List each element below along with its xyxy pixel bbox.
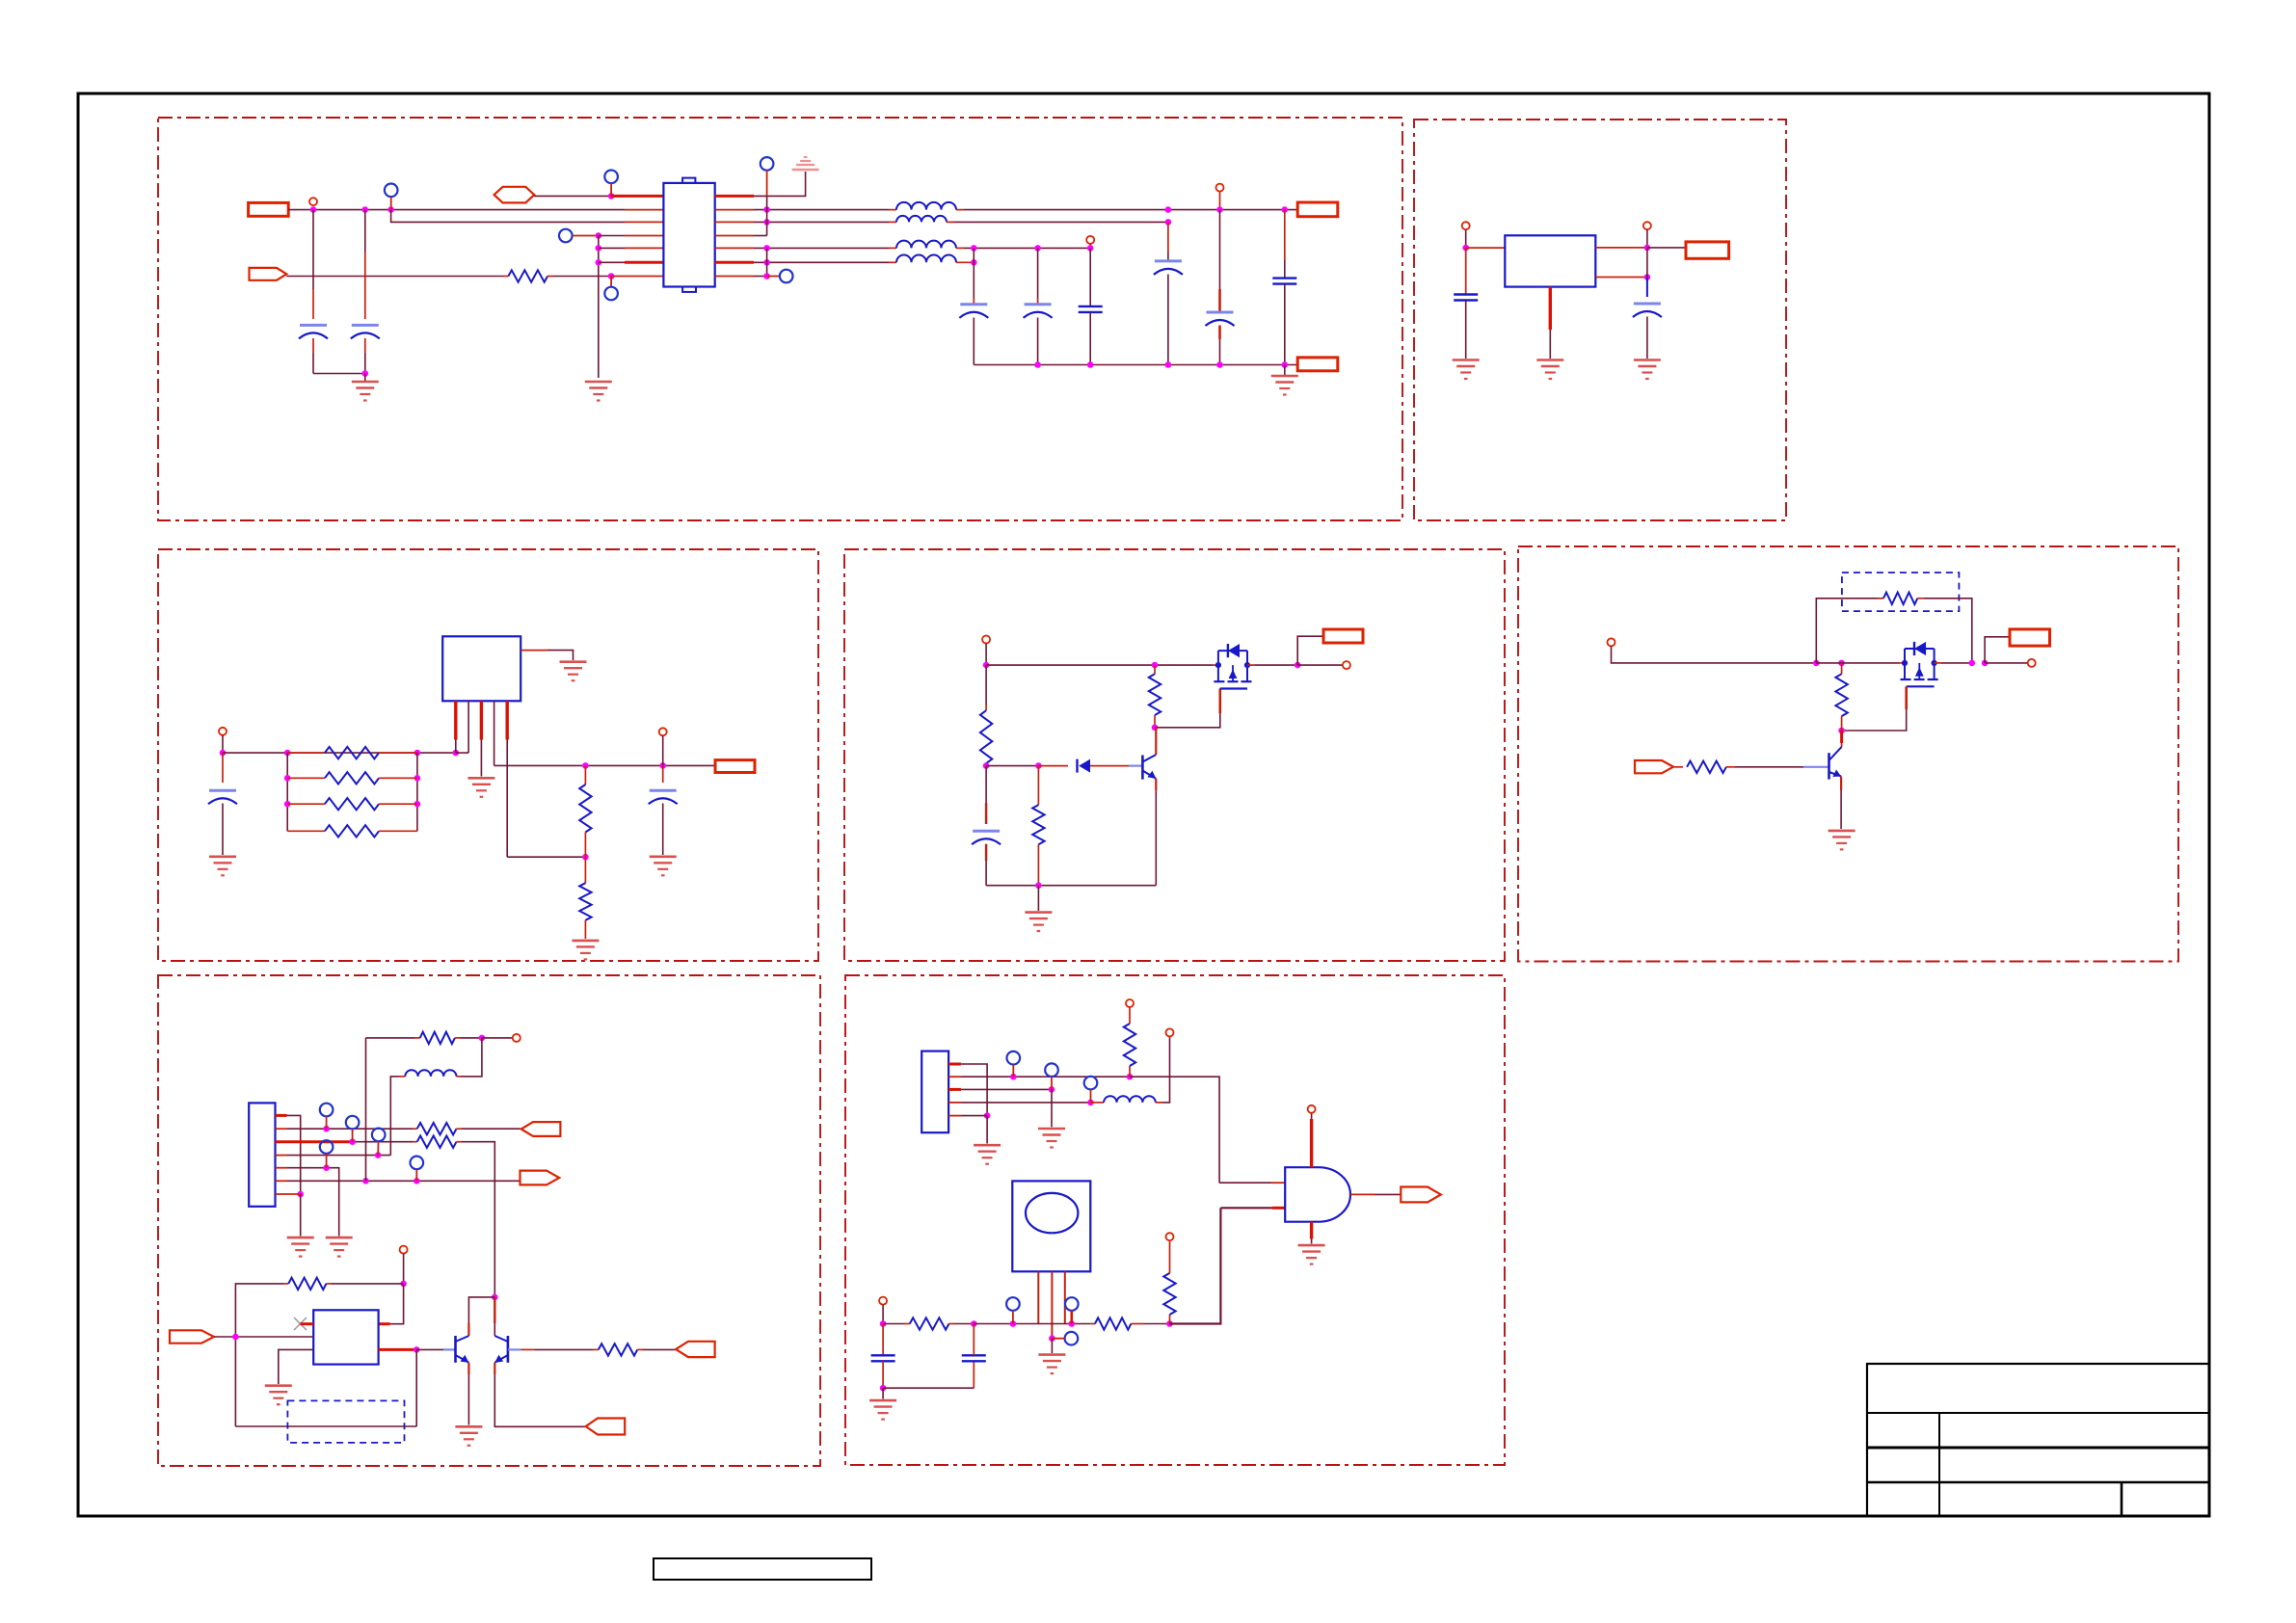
node rail-col4: [1165, 361, 1172, 368]
MOSFET Q1 P-channel: [1214, 644, 1251, 689]
resistor R4: [325, 798, 379, 810]
capacitor C11: [209, 789, 236, 792]
ground GND2: [585, 382, 612, 401]
capacitor C2: [352, 324, 379, 327]
wire P1 to R1: [286, 276, 503, 278]
resistor R11: [1883, 593, 1917, 604]
node pin6-bus: [362, 1178, 369, 1184]
resistor R1: [503, 276, 508, 278]
node collector-top: [492, 1294, 498, 1301]
gate wire Q3: [1905, 686, 1908, 709]
wire pin3 gnd: [1051, 1089, 1053, 1127]
resistor R19: [1124, 1024, 1135, 1066]
no-connect circle NC17: [1065, 1332, 1079, 1345]
resistor R14: [417, 1123, 457, 1134]
wire pin1 to gnd: [986, 1116, 988, 1144]
node BC-left: [880, 1320, 887, 1327]
node base-drive: [414, 1346, 420, 1353]
wire out to J6: [1297, 636, 1323, 665]
node divider top: [582, 762, 589, 769]
resistor R3: [325, 772, 379, 784]
CN1 pin1 wire: [276, 1114, 287, 1117]
wire out to term: [1297, 664, 1343, 666]
wire bus to U1 pin6: [599, 261, 625, 263]
ground GND18: [974, 1145, 1001, 1164]
gate upper input stub: [1272, 1182, 1286, 1184]
gate wire: [1155, 713, 1220, 728]
terminal circle U6-vcc: [1308, 1105, 1316, 1113]
connector J1: [249, 202, 289, 216]
wire bus to R16: [366, 1037, 415, 1039]
ground GND14: [287, 1237, 314, 1257]
node row5-bus: [596, 245, 602, 252]
stub NC1: [390, 197, 392, 210]
node MC-in: [983, 662, 990, 669]
node row2-col4: [1165, 206, 1172, 213]
pin stub U1 pin12: [715, 247, 754, 249]
wire outA-outB: [1646, 248, 1648, 278]
node R3 right: [414, 775, 421, 782]
wire midpin gnd: [1051, 1339, 1053, 1353]
node pin4: [375, 1152, 382, 1158]
resistor R8: [980, 710, 992, 763]
node L4-col1: [971, 259, 977, 266]
node U3pin1: [453, 750, 460, 757]
cap C1 column: [312, 210, 314, 289]
wire to gate lower input: [1170, 1208, 1221, 1323]
node R16-L5: [479, 1035, 486, 1042]
stub NC14: [1090, 1089, 1092, 1103]
stub circle3: [1219, 192, 1221, 210]
bus riser: [365, 1038, 367, 1181]
U3 right pin to gnd: [521, 650, 547, 652]
IC U5 oscillator: [1012, 1181, 1090, 1271]
no-connect circle NC6: [780, 270, 793, 283]
capacitor C6: [1155, 259, 1182, 262]
terminal circle MR-in: [1608, 638, 1615, 646]
node C14-gnd: [880, 1385, 887, 1392]
stub VR-out: [1646, 229, 1648, 248]
inductor L6: [1104, 1096, 1156, 1103]
capacitor C3: [960, 303, 987, 306]
node MR out2: [1982, 660, 1989, 667]
ground GND12: [1025, 913, 1052, 932]
connector P7 arrow: [676, 1342, 715, 1357]
wire L5 to pin4: [390, 1077, 399, 1156]
cap C13 column: [985, 766, 987, 803]
right bank bus: [416, 753, 418, 831]
cap C15 column: [973, 1361, 974, 1388]
no-connect circle NC3: [559, 229, 573, 243]
no-connect circle NC12: [1007, 1051, 1021, 1065]
ground GND19: [1038, 1129, 1065, 1148]
resistor R17: [283, 1283, 288, 1285]
inductor L5: [405, 1070, 456, 1077]
wire row3 right: [754, 221, 889, 223]
pin stub U1 pin13: [715, 235, 754, 237]
no-ERC circle ML-out: [659, 728, 667, 735]
wire L3 right: [964, 247, 1090, 249]
IC U1 transformer: [663, 178, 714, 292]
connector P8 arrow: [1401, 1187, 1441, 1203]
stub NC17: [1052, 1338, 1064, 1340]
U3 pin5 stub: [506, 701, 509, 739]
resistor R18: [599, 1344, 638, 1355]
wire row7 right: [754, 276, 767, 278]
resistor R4: [287, 803, 325, 805]
wire L5 loop: [461, 1038, 482, 1077]
U4 pin stub left1: [301, 1322, 314, 1325]
U3 pin2 stub: [467, 701, 469, 753]
node pin3: [349, 1138, 356, 1145]
wire rail-gnd: [1284, 365, 1286, 377]
collector jog left: [468, 1297, 494, 1323]
stub NC16: [1071, 1311, 1074, 1324]
resistor R10: [1032, 805, 1044, 844]
inductor L3: [896, 241, 956, 249]
terminal circle BL: [513, 1034, 521, 1042]
resistor R9: [1149, 674, 1161, 715]
wire out jog to J7: [1985, 637, 2010, 663]
stub ML-out: [662, 735, 664, 765]
section border: bottom-left block: [158, 975, 820, 1466]
ground GND6: [1634, 360, 1661, 380]
resistor R20: [910, 1317, 949, 1329]
U5 pin3 stub: [1064, 1271, 1066, 1323]
no-ERC circle: [309, 198, 317, 205]
cap C9 column: [1465, 248, 1467, 294]
ground GND10: [572, 941, 599, 960]
wire R18 to P7: [643, 1348, 676, 1350]
wire in to U2: [1466, 247, 1506, 249]
U2 out pin A: [1595, 247, 1647, 249]
wire L1 right: [964, 209, 1297, 211]
resistor R12: [1835, 674, 1847, 716]
capacitor C7: [1207, 311, 1234, 314]
bypass loop wire right: [1924, 599, 1972, 663]
transistor Q5 dual left: [456, 1336, 469, 1363]
stub ML-in: [222, 735, 224, 753]
wire MC mid: [986, 765, 1038, 767]
IC U3: [442, 636, 521, 701]
cap C6 column: [1167, 222, 1169, 253]
no-ERC circle 2: [1086, 236, 1094, 244]
capacitor C4: [1025, 303, 1052, 306]
wire R17 down to U4: [390, 1284, 404, 1324]
gate lower input stub: [1272, 1207, 1286, 1210]
no-connect circle NC5: [761, 157, 774, 171]
node row2-col5: [1216, 206, 1223, 213]
node R17-right: [400, 1281, 407, 1288]
resistor R6: [579, 785, 591, 833]
stub VR-in: [1465, 229, 1467, 248]
CN2 pin5 wire: [948, 1115, 961, 1117]
U2 gnd pin: [1549, 287, 1552, 331]
no-connect circle NC14: [1084, 1077, 1098, 1090]
left bank bus: [286, 753, 288, 831]
no-connect circle NC1: [385, 184, 398, 198]
node row5-col2: [1034, 245, 1041, 252]
no-connect X mark: [294, 1317, 307, 1330]
title block: [1867, 1364, 2209, 1516]
resistor R8: [985, 665, 987, 704]
bus vertical right bottom: [766, 248, 768, 276]
stub NC15: [1012, 1311, 1014, 1324]
capacitor C5: [1079, 306, 1103, 307]
wire to gate upper input: [1219, 1182, 1272, 1184]
ground GND8: [560, 662, 587, 681]
resistor R1: [508, 270, 547, 281]
stub NC7: [326, 1116, 328, 1129]
transistor Q6 dual right: [494, 1336, 508, 1363]
resistor R5: [325, 825, 379, 837]
stub NC3: [573, 235, 599, 237]
wire row2-row3 jog: [391, 210, 625, 223]
pin stub U1 pin15: [715, 209, 754, 211]
diode D1: [1038, 765, 1068, 767]
node MC-gnd: [1035, 882, 1042, 889]
resistor R6: [584, 765, 586, 785]
pin stub U1 pin1: [611, 195, 663, 198]
wire pin2 right: [1130, 1077, 1219, 1183]
U6 gnd pin: [1310, 1222, 1313, 1239]
resistor R19: [1129, 1066, 1131, 1077]
wire row6 right: [754, 261, 889, 263]
resistor R10: [1037, 766, 1039, 806]
cap C12 column: [662, 765, 664, 783]
connector CN2 block: [921, 1051, 948, 1133]
no-ERC circle BL2: [400, 1246, 408, 1254]
cap C4 column: [1037, 248, 1039, 298]
connector P4 arrow: [521, 1171, 560, 1185]
pin stub U1 pin2: [625, 209, 663, 211]
connector J4: [1686, 242, 1729, 258]
stub NC9: [377, 1141, 379, 1155]
node MC-mid: [983, 762, 990, 769]
node VR-outA: [1644, 245, 1651, 252]
node pin2: [323, 1126, 330, 1132]
CN1 pin4 wire: [276, 1155, 288, 1157]
node row2-C2: [362, 206, 369, 213]
resistor R17: [288, 1278, 326, 1290]
wire base-drive right: [416, 1348, 443, 1350]
wire base-drive down: [415, 1349, 417, 1426]
inductor L2: [889, 221, 896, 223]
resistor R3: [287, 777, 325, 779]
no-ERC circle MC-in: [982, 636, 990, 644]
resistor R20: [883, 1323, 904, 1325]
wire P2 to R13: [1673, 766, 1683, 768]
resistor R13: [1687, 761, 1726, 773]
terminal circle BC-top: [1166, 1028, 1174, 1036]
inductor L3: [889, 247, 896, 249]
node mid-pin: [1049, 1335, 1055, 1342]
IC U4 optocoupler: [313, 1310, 378, 1364]
node pin3: [1049, 1086, 1055, 1093]
node row2-C1: [310, 206, 317, 213]
wire R1 to U1 pin7: [553, 276, 611, 278]
resistor R16: [414, 1037, 420, 1039]
ground GND13: [1829, 831, 1855, 850]
capacitor C9: [1454, 293, 1478, 295]
resistor R22: [1169, 1315, 1171, 1324]
wire R14 to P3: [457, 1128, 463, 1130]
capacitor C10: [1634, 303, 1661, 306]
BL bottom wire left: [235, 1425, 416, 1427]
power earth flag PE1: [792, 157, 819, 170]
section border: middle-center block: [844, 549, 1505, 961]
transistor Q4 NPN: [1803, 747, 1842, 780]
wire pin1-gnd: [300, 1194, 302, 1237]
wire pin5 to fb: [507, 856, 585, 858]
wire row5 right: [754, 247, 889, 249]
bypass loop wire: [1816, 599, 1878, 663]
node row4-bus: [596, 232, 602, 239]
ground GND22: [1298, 1245, 1325, 1264]
U3 pin2 jog: [456, 752, 468, 754]
node row2-bus2: [763, 206, 770, 213]
wire ML main: [223, 752, 456, 754]
inductor L4: [889, 261, 896, 263]
resistor R21: [1095, 1317, 1131, 1329]
input arrow P5: [170, 1330, 214, 1343]
node MR gate: [1838, 728, 1845, 734]
collector wire MR: [1840, 731, 1843, 743]
node row6-bus3: [763, 259, 770, 266]
node row1: [608, 193, 615, 200]
ground GND1: [352, 382, 379, 401]
cap C8 column: [1284, 210, 1286, 260]
connector P6 arrow: [586, 1419, 626, 1435]
wire L2 right: [954, 221, 1168, 223]
node L3-col1: [971, 245, 977, 252]
connector J7: [2010, 629, 2050, 646]
CN2 pin2 wire: [948, 1076, 961, 1078]
stub MC-in: [985, 644, 987, 666]
stub BL2: [403, 1254, 405, 1284]
node row2-NC: [387, 206, 394, 213]
U6 output wire: [1350, 1193, 1375, 1195]
resistor R21: [1091, 1323, 1095, 1325]
wire to GND1: [364, 374, 366, 383]
node rail-col3: [1087, 361, 1094, 368]
connector P1 input arrow: [250, 268, 287, 280]
node input-fb: [232, 1334, 239, 1341]
wire Q3 drain: [1935, 662, 1941, 664]
wire P5 to U4: [214, 1336, 313, 1338]
pin stub U1 pin14: [715, 221, 754, 223]
node pin5-gnd: [984, 1112, 991, 1119]
emitter wire MR: [1840, 777, 1842, 791]
wire Rb down to Q5: [494, 1297, 495, 1323]
U5 pin2 stub: [1051, 1271, 1053, 1338]
U4 pin stub right1: [379, 1322, 390, 1325]
node rail-col2: [1034, 361, 1041, 368]
CN1 pin3 wire: [276, 1140, 353, 1143]
node pin2: [1010, 1074, 1017, 1080]
capacitor C1: [300, 324, 327, 327]
node rail-col5: [1216, 361, 1223, 368]
no-connect circle NC9: [372, 1129, 386, 1142]
resistor R5: [287, 830, 325, 832]
no-connect circle NC8: [346, 1116, 360, 1130]
ground GND20: [869, 1400, 896, 1420]
wire J1 to U1 pin2: [288, 209, 625, 211]
resistor R11: [1878, 598, 1883, 599]
Q2 emitter wire: [1155, 779, 1157, 791]
no-connect circle NC16: [1065, 1297, 1079, 1311]
stub NC13: [1051, 1077, 1053, 1089]
section border: bottom-center block: [845, 975, 1505, 1465]
stub NC10: [326, 1154, 328, 1168]
CN1 pin6 wire: [276, 1180, 288, 1182]
node MC-out: [1295, 662, 1301, 669]
U3 pin4 stub: [494, 701, 495, 765]
MOSFET Q3 P-channel: [1901, 642, 1938, 686]
ground GND5: [1536, 360, 1563, 380]
ground GND16: [265, 1386, 292, 1405]
U4 pin stub left3: [279, 1349, 313, 1384]
stub NC6: [767, 276, 780, 278]
stub NC11: [415, 1169, 417, 1181]
resistor R7: [584, 857, 586, 883]
resistor R12: [1841, 663, 1843, 674]
no-connect circle NC4: [604, 171, 618, 184]
wire bus to U1 pin5: [599, 247, 625, 249]
no-ERC circle BC1: [1126, 999, 1134, 1007]
Q5 emitter to gnd: [467, 1363, 469, 1374]
no-connect circle NC13: [1045, 1063, 1058, 1077]
connector J5: [715, 760, 755, 773]
connector CN1 block: [249, 1103, 275, 1206]
stub NC2: [610, 277, 612, 287]
node row6-bus: [596, 259, 602, 266]
U2 out pin B: [1595, 277, 1647, 279]
node row3-bus2: [763, 219, 770, 226]
bottom rail: [974, 364, 1297, 366]
ground GND9: [467, 778, 494, 797]
node VR-outB: [1644, 274, 1651, 280]
no-ERC circle ML-in: [219, 728, 227, 735]
CN2 pin3 wire: [948, 1088, 961, 1091]
connector J6: [1323, 629, 1363, 643]
bottom loop wire: [883, 1387, 974, 1389]
cap C14 column: [882, 1324, 884, 1356]
Q2 collector wire: [1155, 728, 1157, 755]
stub MR-in: [1612, 646, 1817, 663]
terminal circle MC-out: [1343, 661, 1350, 669]
ground GND11: [650, 857, 677, 876]
node pin4: [1087, 1100, 1094, 1106]
node R3 left: [284, 775, 291, 782]
node row5-bus3: [763, 245, 770, 252]
node ML-in: [220, 750, 227, 757]
transistor Q2 NPN: [1129, 755, 1156, 780]
CN1 pin2 wire: [276, 1128, 288, 1130]
no-connect circle NC10: [320, 1140, 334, 1154]
stub circle row5 end: [1089, 244, 1091, 249]
stub NC12: [1012, 1065, 1014, 1078]
no-ERC circle BC2: [879, 1297, 887, 1305]
node rail-col6: [1282, 361, 1289, 368]
dashed option box BL: [287, 1400, 404, 1443]
wire L6 to term: [1156, 1102, 1162, 1104]
node pin5: [323, 1164, 330, 1171]
connector P2 input: [1635, 760, 1673, 773]
ground GND15: [326, 1237, 353, 1257]
capacitor C13: [973, 830, 1000, 833]
U4 pin stub right2: [379, 1348, 417, 1351]
